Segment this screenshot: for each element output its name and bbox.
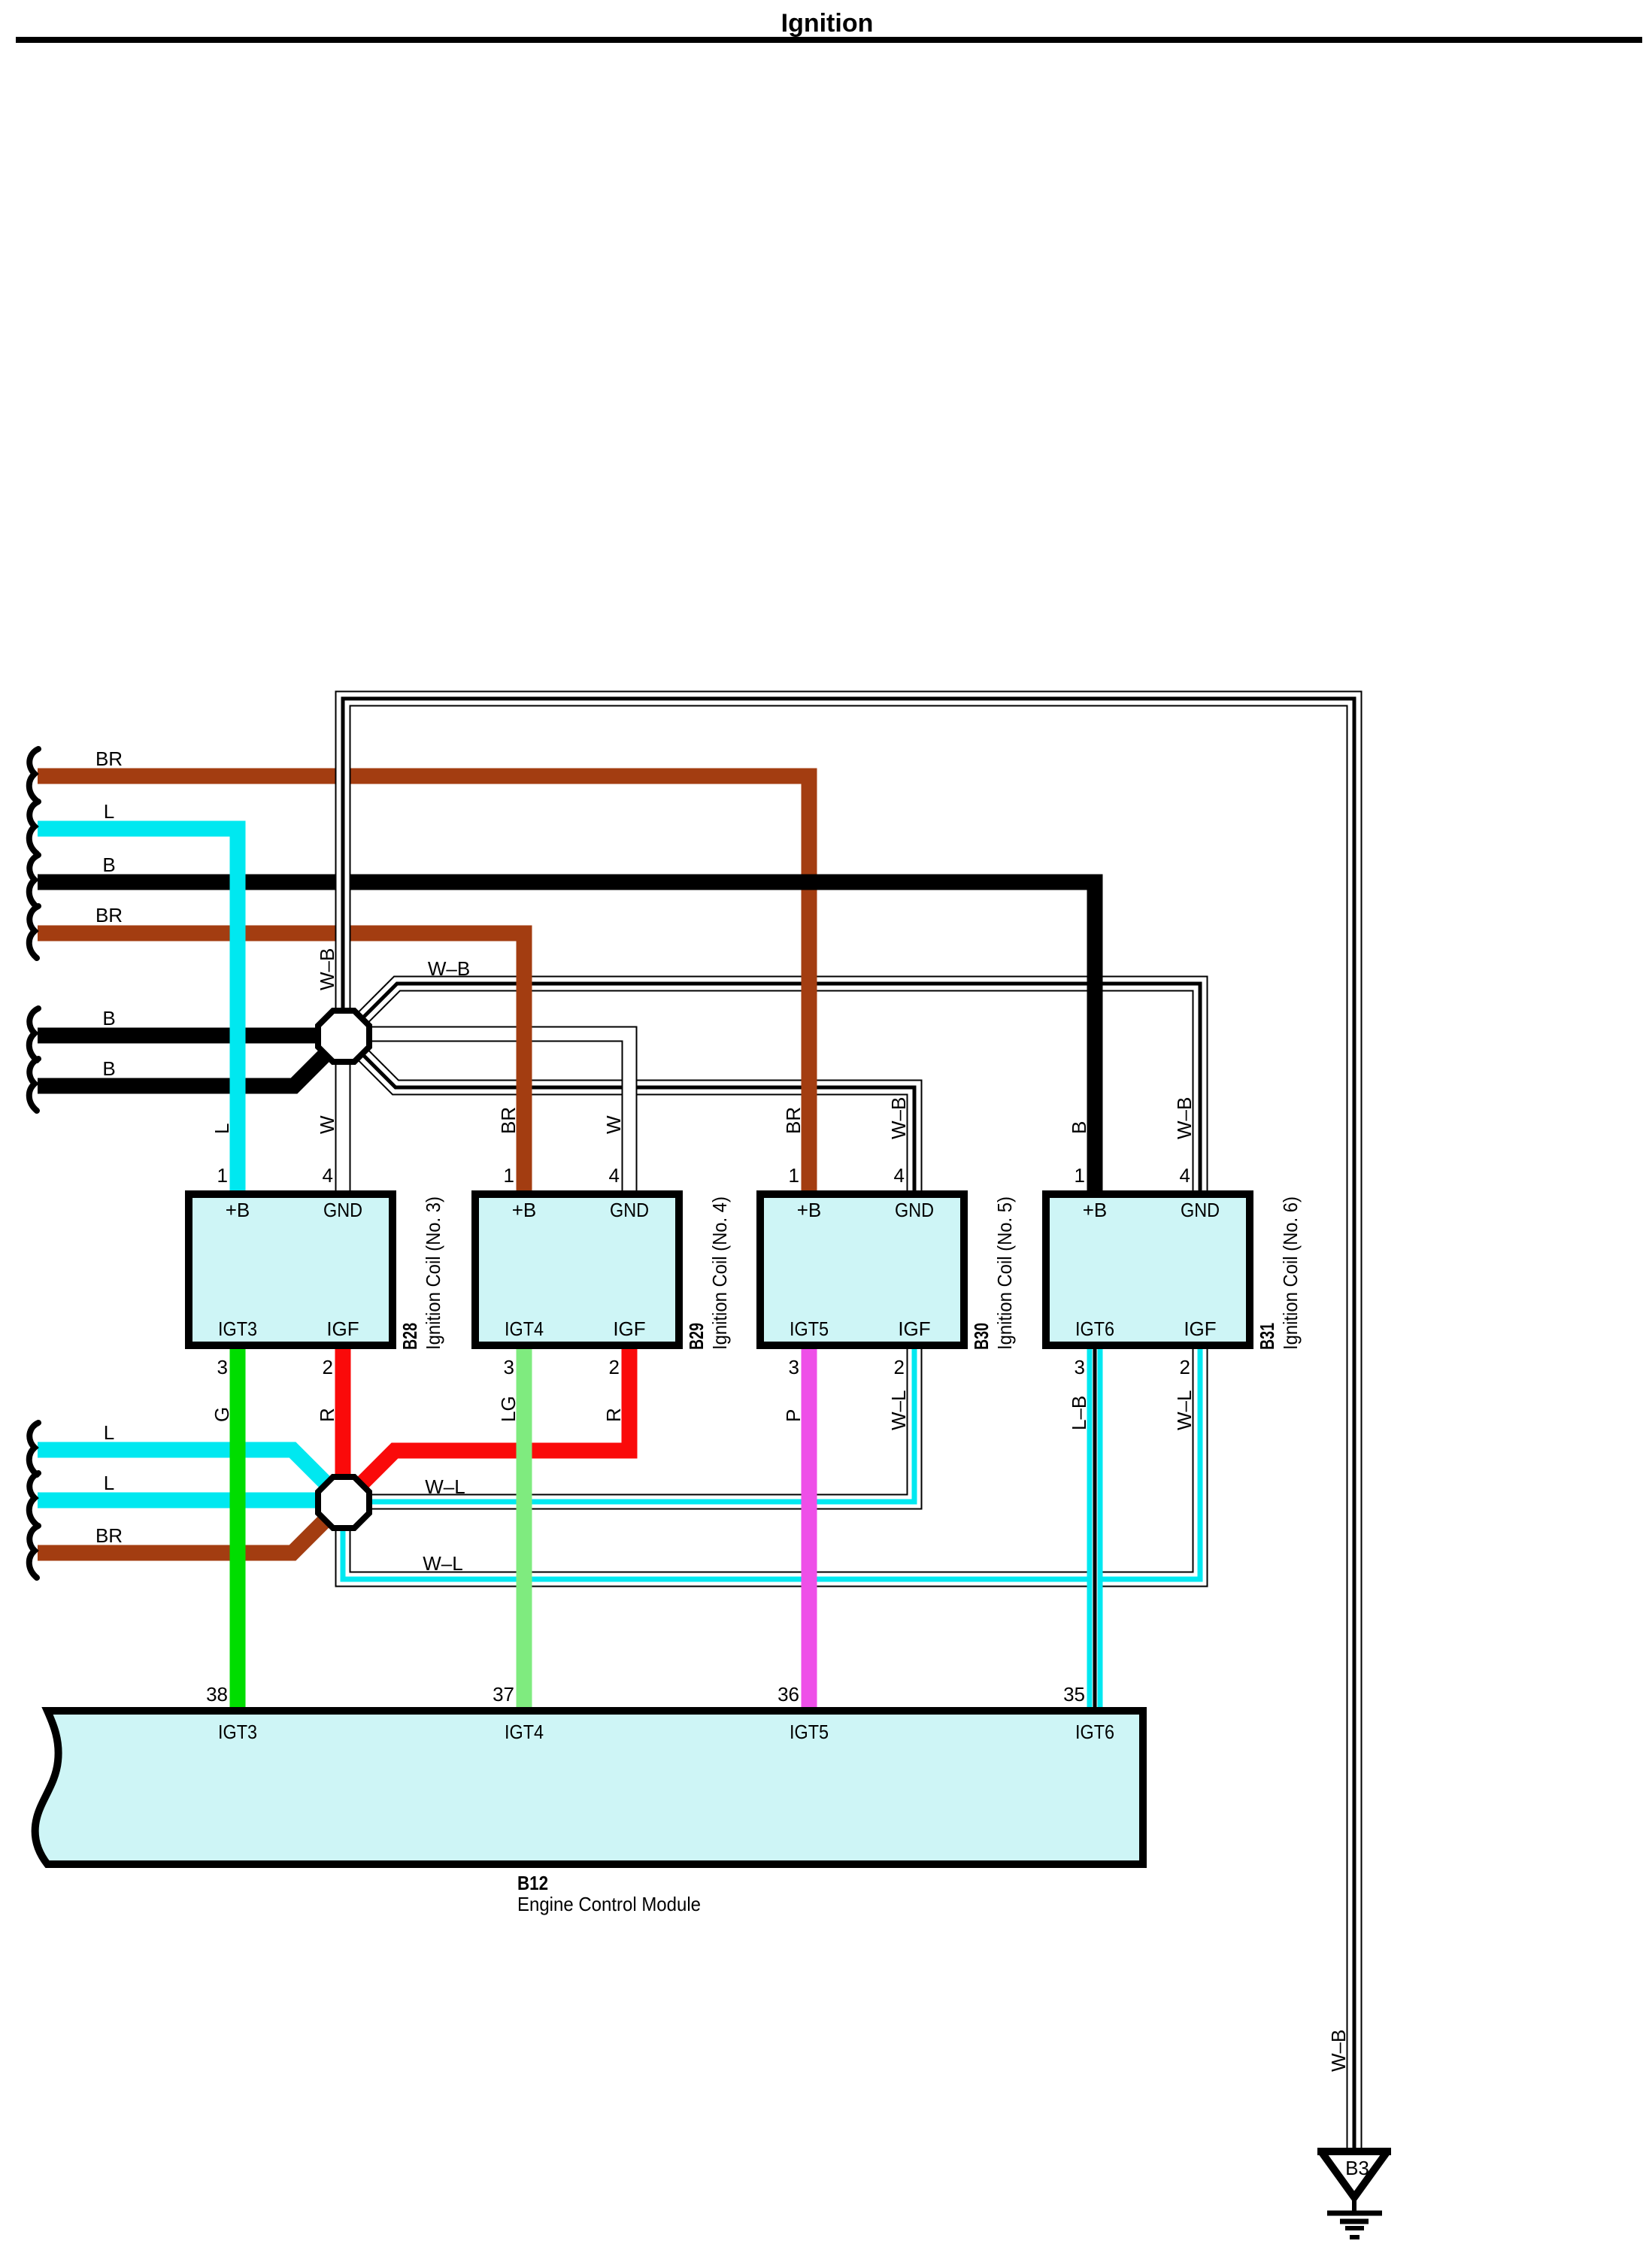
wire BR (to B30 +B) horizontal xyxy=(38,769,810,784)
svg-text:IGF: IGF xyxy=(326,1318,359,1340)
svg-text:Engine Control Module: Engine Control Module xyxy=(517,1893,701,1915)
label L at B28 pin 1 xyxy=(211,1123,233,1134)
svg-text:IGT5: IGT5 xyxy=(790,1318,829,1340)
svg-text:36: 36 xyxy=(778,1683,799,1706)
pin 3 of B30 xyxy=(789,1356,799,1378)
wire BR vertical to B29 +B xyxy=(391,933,524,1199)
svg-text:W–L: W–L xyxy=(887,1390,910,1430)
terminal GND of B28 xyxy=(323,1199,362,1221)
svg-text:B28: B28 xyxy=(399,1323,421,1350)
designator B28 xyxy=(399,1323,421,1350)
label W-B (top run to B31 GND) xyxy=(428,957,470,980)
pin 36 of B12 xyxy=(778,1683,799,1706)
terminal +B of B28 xyxy=(226,1199,250,1221)
designator Ignition Coil (No. 4) xyxy=(708,1196,731,1350)
wire W-L: J2 right to B30 IGF xyxy=(368,1345,914,1502)
ECM B12 box (torn left edge) xyxy=(35,1711,1143,1864)
terminal IGT4 of B29 xyxy=(505,1318,544,1340)
wire R: B28 IGF down to J2 xyxy=(335,1345,351,1478)
svg-text:R: R xyxy=(316,1408,338,1422)
svg-text:GND: GND xyxy=(610,1199,649,1221)
designator Engine Control Module xyxy=(517,1893,701,1915)
svg-text:BR: BR xyxy=(782,1107,805,1134)
svg-text:Ignition Coil (No. 6): Ignition Coil (No. 6) xyxy=(1279,1196,1302,1350)
terminal GND of B30 xyxy=(895,1199,934,1221)
label BR at B29 pin 1 xyxy=(497,1107,520,1134)
svg-text:B3: B3 xyxy=(1345,2157,1369,2179)
svg-text:IGF: IGF xyxy=(1184,1318,1216,1340)
svg-text:3: 3 xyxy=(217,1356,228,1378)
svg-text:L–B: L–B xyxy=(1068,1396,1090,1430)
label W at B28 pin 4 xyxy=(316,1115,338,1134)
junction J2 (octagon splice) xyxy=(318,1477,369,1528)
connector break brace (wire B lower to J1) xyxy=(29,1059,38,1111)
wire BR vertical to B30 +B xyxy=(391,776,809,1199)
svg-text:1: 1 xyxy=(1075,1164,1085,1187)
label W-L (run to B31 IGF) xyxy=(423,1552,462,1575)
svg-text:37: 37 xyxy=(493,1683,514,1706)
svg-text:B12: B12 xyxy=(517,1872,548,1894)
svg-text:W: W xyxy=(602,1115,625,1134)
svg-text:IGT6: IGT6 xyxy=(1075,1318,1114,1340)
svg-text:W–B: W–B xyxy=(1173,1097,1196,1139)
wire R: J2 NE elbow to B29 IGF xyxy=(362,1345,629,1484)
terminal IGF of B30 xyxy=(898,1318,930,1340)
terminal IGT3 of B12 xyxy=(218,1721,257,1743)
svg-text:W–B: W–B xyxy=(316,948,338,990)
svg-text:Ignition Coil (No. 3): Ignition Coil (No. 3) xyxy=(422,1196,444,1350)
svg-text:IGT3: IGT3 xyxy=(218,1318,257,1340)
pin 4 of B31 xyxy=(1180,1164,1190,1187)
connector break brace (wire L middle to J2) xyxy=(29,1473,38,1525)
svg-text:B: B xyxy=(1068,1121,1090,1134)
pin 38 of B12 xyxy=(206,1683,228,1706)
svg-text:L: L xyxy=(104,800,114,823)
svg-text:B30: B30 xyxy=(970,1323,993,1350)
svg-text:G: G xyxy=(211,1407,233,1422)
label P at B30 pin 3 xyxy=(782,1409,805,1422)
wire W-L: J2 bottom to B31 IGF xyxy=(343,1345,1200,1579)
terminal IGF of B29 xyxy=(613,1318,645,1340)
wire W-B main: J1 top, top rail, right drop to ground B3 xyxy=(343,699,1354,2150)
svg-text:+B: +B xyxy=(226,1199,250,1221)
connector break brace (wire B to B31) xyxy=(29,855,38,907)
pin 2 of B31 xyxy=(1180,1356,1190,1378)
pin 3 of B28 xyxy=(217,1356,228,1378)
designator Ignition Coil (No. 3) xyxy=(422,1196,444,1350)
label W-L at B31 pin 2 xyxy=(1173,1390,1196,1430)
designator B3 (ground) xyxy=(1345,2157,1369,2179)
svg-text:B31: B31 xyxy=(1256,1323,1278,1350)
top rule xyxy=(16,37,1642,43)
svg-text:P: P xyxy=(782,1409,805,1422)
label W at B29 pin 4 xyxy=(602,1115,625,1134)
svg-text:4: 4 xyxy=(323,1164,333,1187)
connector break brace (wire L upper to J2) xyxy=(29,1423,38,1475)
svg-text:Ignition Coil (No. 5): Ignition Coil (No. 5) xyxy=(993,1196,1016,1350)
wire B (to B31 +B) horizontal xyxy=(38,875,1095,890)
pin 3 of B31 xyxy=(1075,1356,1085,1378)
svg-text:IGT5: IGT5 xyxy=(790,1721,829,1743)
pin 1 of B28 xyxy=(217,1164,228,1187)
junction J1 (octagon splice) xyxy=(318,1011,369,1062)
svg-text:35: 35 xyxy=(1063,1683,1085,1706)
wire L to B28 +B xyxy=(38,829,238,1199)
terminal GND of B31 xyxy=(1181,1199,1220,1221)
connector break brace (wire BR to B30) xyxy=(29,749,38,801)
svg-text:W–L: W–L xyxy=(425,1475,465,1498)
wire L-B: B31 IGT6 to ECM pin 35 xyxy=(1094,1345,1096,1712)
wire G: B28 IGT3 to ECM pin 38 xyxy=(230,1345,246,1712)
label G at B28 pin 3 xyxy=(211,1407,233,1422)
svg-text:IGT6: IGT6 xyxy=(1075,1721,1114,1743)
svg-text:W: W xyxy=(316,1115,338,1134)
designator B31 xyxy=(1256,1323,1278,1350)
svg-text:B29: B29 xyxy=(685,1323,708,1350)
svg-text:GND: GND xyxy=(895,1199,934,1221)
svg-text:B: B xyxy=(102,1057,115,1080)
label B (upper wire to J1) xyxy=(102,1007,115,1029)
wire W-B: J1 SE diagonal to B30 GND xyxy=(359,1051,914,1199)
terminal IGT5 of B12 xyxy=(790,1721,829,1743)
svg-text:BR: BR xyxy=(95,1524,123,1547)
connector break brace (wire BR to J2) xyxy=(29,1526,38,1578)
svg-text:GND: GND xyxy=(1181,1199,1220,1221)
svg-text:Ignition Coil (No. 4): Ignition Coil (No. 4) xyxy=(708,1196,731,1350)
label L (wire to B28 +B) xyxy=(104,800,114,823)
wire LG: B29 IGT4 to ECM pin 37 xyxy=(517,1345,532,1712)
svg-text:Ignition: Ignition xyxy=(781,9,874,38)
svg-text:3: 3 xyxy=(1075,1356,1085,1378)
label B (lower wire to J1) xyxy=(102,1057,115,1080)
designator B30 xyxy=(970,1323,993,1350)
svg-text:IGT4: IGT4 xyxy=(505,1721,544,1743)
svg-text:W–L: W–L xyxy=(1173,1390,1196,1430)
svg-text:BR: BR xyxy=(497,1107,520,1134)
terminal IGT4 of B12 xyxy=(505,1721,544,1743)
terminal IGT6 of B31 xyxy=(1075,1318,1114,1340)
svg-text:IGF: IGF xyxy=(613,1318,645,1340)
designator Ignition Coil (No. 6) xyxy=(1279,1196,1302,1350)
svg-text:IGT4: IGT4 xyxy=(505,1318,544,1340)
svg-text:W–B: W–B xyxy=(887,1097,910,1139)
wire BR (to B29 +B) horizontal xyxy=(38,926,524,942)
terminal IGT6 of B12 xyxy=(1075,1721,1114,1743)
svg-text:W–B: W–B xyxy=(1327,2030,1350,2072)
label LG at B29 pin 3 xyxy=(497,1396,520,1422)
svg-text:B: B xyxy=(102,854,115,876)
svg-text:2: 2 xyxy=(323,1356,333,1378)
label W-B (right drop to ground) xyxy=(1327,2030,1350,2072)
pin 1 of B31 xyxy=(1075,1164,1085,1187)
terminal +B of B31 xyxy=(1083,1199,1108,1221)
svg-text:4: 4 xyxy=(1180,1164,1190,1187)
pin 4 of B28 xyxy=(323,1164,333,1187)
wire P: B30 IGT5 to ECM pin 36 xyxy=(802,1345,817,1712)
wire B into junction J1 (upper) xyxy=(38,1028,331,1044)
ignition coil B31 box xyxy=(1046,1194,1250,1345)
label L (middle wire to J2) xyxy=(104,1472,114,1494)
label L-B at B31 pin 3 xyxy=(1068,1396,1090,1430)
svg-text:4: 4 xyxy=(894,1164,905,1187)
label BR at B30 pin 1 xyxy=(782,1107,805,1134)
pin 3 of B29 xyxy=(504,1356,514,1378)
svg-text:+B: +B xyxy=(797,1199,822,1221)
label W-L (run to B30 IGF) xyxy=(425,1475,465,1498)
svg-text:2: 2 xyxy=(609,1356,620,1378)
svg-text:+B: +B xyxy=(1083,1199,1108,1221)
svg-text:38: 38 xyxy=(206,1683,228,1706)
wire W: J1 right to B29 GND xyxy=(368,1034,629,1199)
label L (upper wire to J2) xyxy=(104,1421,114,1444)
terminal IGT3 of B28 xyxy=(218,1318,257,1340)
terminal GND of B29 xyxy=(610,1199,649,1221)
pin 37 of B12 xyxy=(493,1683,514,1706)
label W-L at B30 pin 2 xyxy=(887,1390,910,1430)
connector break brace (wire BR to B29) xyxy=(29,906,38,958)
designator B12 xyxy=(517,1872,548,1894)
svg-text:2: 2 xyxy=(894,1356,905,1378)
label R at B29 pin 2 xyxy=(602,1408,625,1422)
terminal IGF of B28 xyxy=(326,1318,359,1340)
pin 4 of B30 xyxy=(894,1164,905,1187)
svg-text:1: 1 xyxy=(217,1164,228,1187)
pin 1 of B29 xyxy=(504,1164,514,1187)
svg-text:BR: BR xyxy=(95,747,123,770)
svg-text:3: 3 xyxy=(789,1356,799,1378)
label BR (lower wire to J2) xyxy=(95,1524,123,1547)
pin 2 of B30 xyxy=(894,1356,905,1378)
label B at B31 pin 1 xyxy=(1068,1121,1090,1134)
svg-text:1: 1 xyxy=(789,1164,799,1187)
svg-text:B: B xyxy=(102,1007,115,1029)
ground B3 symbol xyxy=(1317,2148,1391,2237)
title Ignition xyxy=(781,9,874,38)
designator B29 xyxy=(685,1323,708,1350)
svg-text:LG: LG xyxy=(497,1396,520,1422)
wire BR into junction J2 (lower, diagonal) xyxy=(38,1520,326,1553)
label W-B at B31 pin 4 xyxy=(1173,1097,1196,1139)
terminal +B of B30 xyxy=(797,1199,822,1221)
svg-text:W–B: W–B xyxy=(428,957,470,980)
svg-text:4: 4 xyxy=(609,1164,620,1187)
svg-text:W–L: W–L xyxy=(423,1552,462,1575)
svg-text:GND: GND xyxy=(323,1199,362,1221)
label B (wire to B31 +B) xyxy=(102,854,115,876)
pin 4 of B29 xyxy=(609,1164,620,1187)
terminal IGT5 of B30 xyxy=(790,1318,829,1340)
pin 2 of B28 xyxy=(323,1356,333,1378)
label R at B28 pin 2 xyxy=(316,1408,338,1422)
ignition coil B28 box xyxy=(189,1194,393,1345)
pin 1 of B30 xyxy=(789,1164,799,1187)
pin 2 of B29 xyxy=(609,1356,620,1378)
wire L into junction J2 (upper, diagonal) xyxy=(38,1450,326,1483)
connector break brace (wire L to B28) xyxy=(29,802,38,854)
terminal IGF of B31 xyxy=(1184,1318,1216,1340)
pin 35 of B12 xyxy=(1063,1683,1085,1706)
svg-text:3: 3 xyxy=(504,1356,514,1378)
ignition coil B30 box xyxy=(760,1194,964,1345)
wire W: J1 bottom to B28 GND xyxy=(342,1060,344,1199)
svg-text:2: 2 xyxy=(1180,1356,1190,1378)
label W-B at B30 pin 4 xyxy=(887,1097,910,1139)
wire B into junction J1 (lower, diagonal) xyxy=(38,1054,326,1086)
svg-text:IGF: IGF xyxy=(898,1318,930,1340)
label BR (wire to B29 +B) xyxy=(95,904,123,926)
svg-text:L: L xyxy=(211,1123,233,1134)
connector break brace (wire B upper to J1) xyxy=(29,1008,38,1060)
wire W-B: J1 NE diagonal to B31 GND xyxy=(359,984,1200,1199)
svg-text:BR: BR xyxy=(95,904,123,926)
svg-text:+B: +B xyxy=(512,1199,537,1221)
svg-text:L: L xyxy=(104,1421,114,1444)
svg-text:R: R xyxy=(602,1408,625,1422)
svg-text:IGT3: IGT3 xyxy=(218,1721,257,1743)
label BR (wire to B30 +B) xyxy=(95,747,123,770)
wire B vertical to B31 +B xyxy=(391,882,1095,1199)
label W-B (vertical above J1) xyxy=(316,948,338,990)
wire L into junction J2 (middle) xyxy=(38,1493,331,1509)
svg-text:1: 1 xyxy=(504,1164,514,1187)
svg-text:L: L xyxy=(104,1472,114,1494)
designator Ignition Coil (No. 5) xyxy=(993,1196,1016,1350)
terminal +B of B29 xyxy=(512,1199,537,1221)
ignition coil B29 box xyxy=(475,1194,679,1345)
